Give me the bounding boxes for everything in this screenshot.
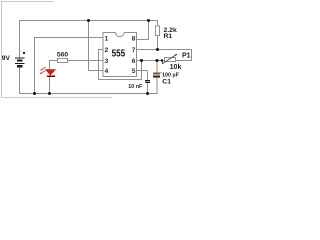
wire LED cathode vertical bbox=[49, 77, 51, 94]
potentiometer P1 bbox=[162, 54, 177, 64]
svg-text:6: 6 bbox=[132, 58, 136, 65]
capacitor C2 10nF bbox=[145, 80, 150, 83]
svg-text:10k: 10k bbox=[170, 64, 182, 71]
battery B1 9V bbox=[15, 52, 25, 67]
svg-text:4: 4 bbox=[105, 68, 109, 75]
node Vcc pin8 bbox=[147, 19, 150, 22]
wire pin5 horizontal bbox=[137, 70, 148, 72]
wire pin6 horizontal right part bbox=[176, 60, 192, 62]
wire pin4 reset vertical to Vcc bbox=[88, 20, 90, 71]
wire ground rail bbox=[20, 93, 158, 95]
op IC 555 body bbox=[103, 33, 137, 77]
wire C1 top vertical bbox=[156, 61, 158, 73]
wire pin4 reset horizontal bbox=[89, 70, 104, 72]
wire pin6 horizontal left part bbox=[137, 60, 165, 62]
node R1 pin7 bbox=[156, 48, 159, 51]
svg-text:555: 555 bbox=[112, 49, 126, 60]
svg-text:8: 8 bbox=[132, 36, 136, 43]
resistor R1 2.2k bbox=[156, 26, 160, 36]
svg-text:100 µF: 100 µF bbox=[162, 72, 180, 78]
wire LED anode vertical bbox=[49, 60, 51, 70]
wire battery bottom lead bbox=[19, 67, 21, 94]
svg-text:3: 3 bbox=[105, 58, 109, 65]
wire Vcc top rail bbox=[20, 20, 158, 22]
wire pin2 to pin6 under IC bbox=[99, 79, 142, 81]
LED D1 bbox=[40, 67, 57, 77]
wire pin3 output to resistor and LED bbox=[50, 60, 104, 62]
wire pin2 stub bbox=[99, 49, 104, 51]
node ground pin1 bbox=[33, 92, 36, 95]
node P1 wiper bbox=[161, 59, 163, 61]
wire pin8 horizontal bbox=[137, 39, 149, 41]
node junction dots bbox=[33, 19, 163, 95]
wire pin7 horizontal bbox=[137, 49, 192, 51]
wire pin5 capacitor vertical top bbox=[147, 71, 149, 80]
wire riser to pin6 node bbox=[141, 60, 143, 80]
IC notch bbox=[116, 32, 125, 37]
svg-text:10 nF: 10 nF bbox=[128, 84, 143, 90]
svg-text:2: 2 bbox=[105, 47, 109, 54]
wire pin1 ground vertical bbox=[34, 37, 36, 94]
svg-text:1: 1 bbox=[105, 36, 109, 43]
svg-text:560: 560 bbox=[57, 51, 69, 58]
node ground LED bbox=[48, 92, 51, 95]
wire battery top lead bbox=[19, 20, 21, 58]
svg-text:R1: R1 bbox=[164, 33, 173, 40]
frame border bbox=[1, 2, 112, 99]
node C1 top bbox=[156, 59, 159, 62]
svg-text:C1: C1 bbox=[162, 79, 171, 86]
wire R1 top lead bbox=[157, 20, 159, 26]
wire C1 bottom vertical bbox=[156, 77, 158, 94]
resistor 560 bbox=[58, 59, 68, 63]
wire R1 bottom lead bbox=[157, 36, 159, 50]
wire pin1 ground horizontal bbox=[35, 37, 104, 39]
svg-text:5: 5 bbox=[132, 68, 136, 75]
wire pin7 to P1 vertical bbox=[191, 49, 193, 61]
node ground C2 bbox=[146, 92, 149, 95]
svg-text:7: 7 bbox=[132, 47, 136, 54]
wire pin8 vertical to Vcc bbox=[148, 20, 150, 40]
svg-text:9V: 9V bbox=[2, 55, 11, 62]
svg-text:P1: P1 bbox=[182, 53, 191, 60]
node pin2 pin6 bbox=[140, 59, 143, 62]
capacitor C1 100uF electrolytic bbox=[153, 73, 160, 78]
node Vcc pin4 bbox=[87, 19, 90, 22]
wire pin2 vertical bbox=[98, 49, 100, 80]
wire pin5 capacitor vertical bottom bbox=[147, 83, 149, 94]
